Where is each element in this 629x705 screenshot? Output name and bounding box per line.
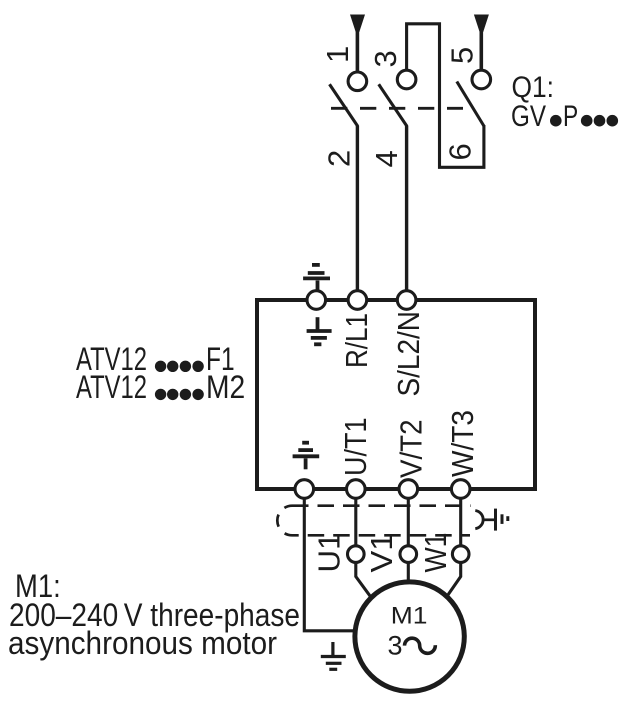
svg-text:5: 5: [445, 47, 480, 64]
svg-text:M1: M1: [391, 603, 428, 630]
wire U phase upper: [354, 498, 357, 546]
svg-text:R/L1: R/L1: [339, 313, 374, 368]
bullets ATV12 line 1: [155, 361, 204, 372]
svg-text:2: 2: [322, 150, 357, 167]
terminal circle 1 (Q1 pole 1 fixed contact): [348, 72, 367, 91]
svg-text:3: 3: [388, 631, 403, 661]
terminal circle R/L1: [348, 291, 367, 310]
wire 2 from Q1 pole 1 to R/L1: [356, 126, 359, 291]
shielded cable outline top (dashed): [292, 504, 471, 507]
earth symbol at motor frame: [321, 642, 346, 669]
bullet 1 after P: [581, 115, 593, 127]
Q1 pole 2 switch blade: [379, 84, 407, 126]
terminal circle 3 (Q1 pole 2 fixed contact): [397, 70, 416, 89]
svg-text:GV: GV: [511, 100, 546, 133]
wire V phase upper: [407, 498, 410, 546]
motor terminal circle U1: [348, 546, 365, 563]
svg-text:1: 1: [320, 46, 355, 63]
shielded cable outline left cap (dashed arc): [277, 506, 292, 536]
Q1 pole 1 switch blade: [330, 84, 358, 126]
supply arrow into terminal 1: [350, 15, 365, 33]
svg-text:V1: V1: [364, 533, 399, 573]
terminal circle V/T2: [399, 480, 418, 499]
output ground terminal circle: [295, 480, 314, 499]
terminal circle 5 (Q1 pole 3 fixed contact): [472, 70, 491, 89]
input ground terminal circle: [307, 291, 326, 310]
svg-text:S/L2/N: S/L2/N: [391, 311, 426, 397]
motor terminal circle V1: [400, 546, 417, 563]
earth symbol above output ground terminal: [293, 443, 320, 470]
Q1 mechanical link (dashed): [331, 107, 463, 110]
svg-text:asynchronous motor: asynchronous motor: [8, 625, 277, 661]
bullet after GV: [550, 115, 562, 127]
svg-text:W1: W1: [418, 533, 453, 573]
svg-text:ATV12: ATV12: [76, 369, 147, 405]
wire W phase to motor: [447, 562, 461, 596]
wire series link terminal 6 to terminal 3: [407, 24, 484, 168]
terminal circle W/T3: [451, 480, 470, 499]
Q1 pole 3 switch blade: [457, 82, 484, 127]
wire V phase to motor: [407, 562, 410, 582]
wire 4 from Q1 pole 2 to S/L2/N: [405, 126, 408, 291]
svg-text:W/T3: W/T3: [445, 410, 480, 477]
wire U phase to motor: [356, 562, 371, 596]
wire arrow to terminal 5: [479, 30, 483, 70]
svg-text:U1: U1: [312, 533, 347, 573]
wire W phase upper: [459, 498, 462, 546]
svg-text:V/T2: V/T2: [394, 420, 429, 479]
supply arrow into terminal 5: [474, 15, 489, 33]
svg-text:P: P: [563, 100, 578, 133]
shielded cable outline bottom (dashed): [292, 534, 470, 537]
drive ATV12 enclosure box: [257, 300, 535, 489]
motor M1 circle: [355, 582, 464, 691]
svg-text:M2: M2: [206, 369, 245, 405]
earth symbol below input ground terminal: [307, 317, 332, 344]
motor terminal circle W1: [452, 546, 469, 563]
bullet 2 after P: [594, 115, 606, 127]
svg-text:6: 6: [443, 143, 478, 160]
terminal circle S/L2/N: [397, 291, 416, 310]
earth symbol above input ground terminal: [303, 265, 330, 292]
svg-text:4: 4: [369, 150, 404, 167]
wire shield to earth: [484, 518, 494, 521]
bullets ATV12 line 2: [155, 389, 204, 400]
terminal circle U/T1: [347, 480, 366, 499]
wire PE from output ground terminal: [304, 498, 354, 631]
earth symbol of cable shield: [496, 509, 508, 531]
bullet 3 after P: [607, 115, 619, 127]
svg-text:U/T1: U/T1: [338, 418, 373, 477]
motor sine symbol: [405, 638, 436, 653]
shielded cable shield tap arc: [475, 511, 483, 529]
svg-text:3: 3: [368, 50, 403, 67]
wire arrow to terminal 1: [356, 30, 360, 72]
